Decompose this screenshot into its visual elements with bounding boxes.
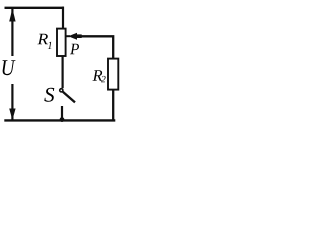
wire R1 top lead (62, 7, 64, 29)
label R2 (93, 70, 103, 81)
arrow up (source U polarity) (9, 9, 15, 22)
label U (3, 60, 16, 75)
switch S pivot terminal (60, 89, 63, 92)
wire R2 bottom lead (112, 90, 114, 120)
label P (70, 44, 79, 55)
wire top horizontal (5, 7, 65, 9)
arrow down (source U polarity) (9, 109, 15, 121)
wire switch bottom stub (61, 106, 63, 120)
wire wiper to right branch with corner (80, 36, 113, 59)
label R1 (37, 34, 48, 45)
label S (44, 88, 54, 102)
wire R1 bottom lead (61, 56, 63, 88)
switch S blade (63, 92, 75, 103)
potentiometer wiper arrow P (66, 33, 82, 40)
resistor R1 (57, 29, 66, 56)
junction dot on bottom wire (60, 117, 65, 122)
wire bottom horizontal (4, 119, 115, 121)
wire left branch upper segment (11, 7, 13, 56)
wire left branch lower segment (11, 84, 13, 120)
resistor R2 (108, 59, 118, 90)
